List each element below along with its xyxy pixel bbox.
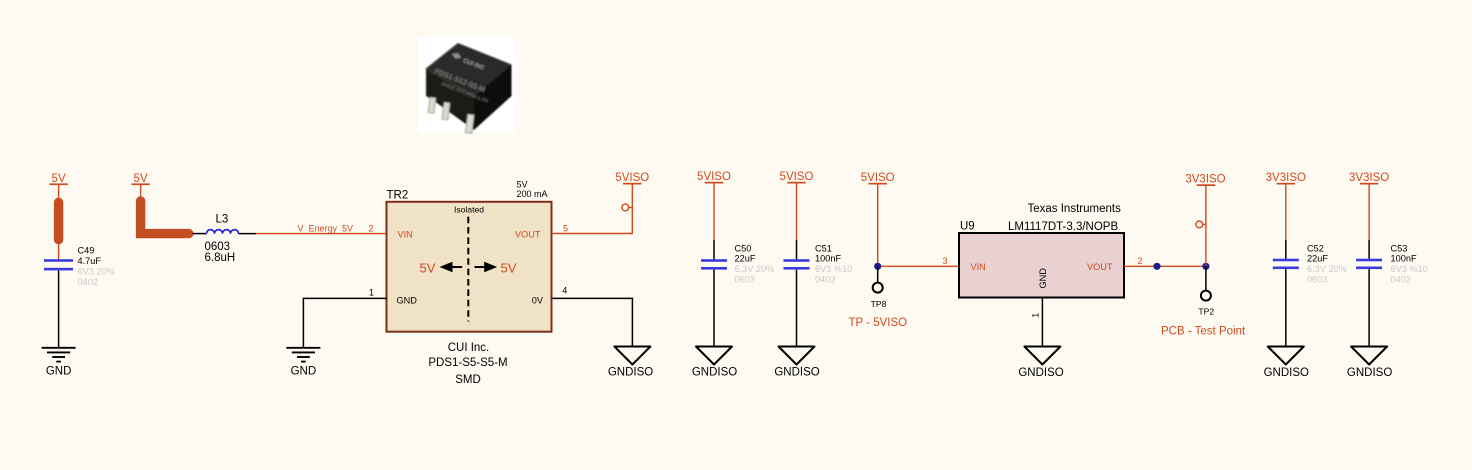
inductor L3	[207, 230, 239, 234]
svg-text:0402: 0402	[78, 277, 98, 287]
power port 3V3ISO (C52)	[1266, 172, 1306, 185]
ground GNDISO (TR2)	[608, 347, 653, 379]
svg-text:6.8uH: 6.8uH	[205, 252, 236, 264]
wire C52 to GNDISO	[1285, 269, 1287, 346]
svg-text:0603: 0603	[1307, 275, 1327, 285]
svg-text:C49: C49	[78, 246, 95, 256]
svg-text:0402: 0402	[815, 275, 835, 285]
wire 5VISO to C50	[713, 183, 715, 240]
svg-text:5V: 5V	[134, 173, 148, 185]
svg-text:0603: 0603	[205, 241, 231, 253]
value label C51 100nF 6V3 %10 0402	[815, 243, 852, 284]
svg-text:GND: GND	[397, 295, 418, 305]
svg-text:U9: U9	[960, 221, 975, 233]
svg-text:5: 5	[563, 223, 568, 233]
svg-text:4: 4	[562, 286, 567, 296]
svg-text:VOUT: VOUT	[1087, 262, 1113, 272]
power port 5VISO (C50)	[697, 171, 731, 184]
svg-text:GNDISO: GNDISO	[1018, 367, 1063, 379]
svg-text:4.7uF: 4.7uF	[78, 256, 102, 266]
svg-text:5V: 5V	[501, 261, 517, 276]
svg-text:5V: 5V	[420, 261, 436, 276]
value label C50 22uF 6.3V 20% 0603	[735, 243, 775, 284]
arrow right	[475, 263, 495, 271]
svg-text:GND: GND	[46, 366, 72, 378]
wire TR2 pin4 to GNDISO	[552, 298, 633, 346]
wire U9 VOUT to 3V3ISO node	[1124, 265, 1206, 267]
regulator U9 body	[959, 233, 1124, 298]
svg-text:TP2: TP2	[1198, 306, 1214, 316]
svg-text:TP - 5VISO: TP - 5VISO	[849, 317, 908, 329]
svg-text:GNDISO: GNDISO	[692, 367, 737, 379]
svg-text:2: 2	[1138, 256, 1143, 266]
svg-text:GNDISO: GNDISO	[608, 367, 653, 379]
component photo CUI PDS1 module	[419, 37, 515, 133]
svg-text:6V3 20%: 6V3 20%	[78, 266, 115, 276]
wire net V_Energy_5V	[256, 233, 387, 235]
svg-text:LM1117DT-3.3/NOPB: LM1117DT-3.3/NOPB	[1008, 221, 1118, 233]
no-ERC marker circle (5VISO)	[622, 204, 632, 211]
power port 5VISO (at TR2 output)	[615, 172, 649, 185]
wire 5VISO down to junction	[877, 184, 879, 266]
capacitor C49	[44, 259, 73, 270]
wire bus to C49	[58, 244, 60, 261]
svg-text:C53: C53	[1391, 243, 1408, 253]
svg-text:V_Energy_5V: V_Energy_5V	[298, 223, 354, 233]
junction node (5VISO/TP8)	[874, 263, 881, 270]
ground GNDISO (C50)	[692, 347, 737, 379]
wire L3 to net	[239, 233, 257, 235]
wire 3V3ISO to C52	[1285, 184, 1287, 240]
svg-text:5VISO: 5VISO	[697, 171, 731, 183]
wire C49 to GND	[58, 270, 60, 347]
svg-text:CUI Inc.: CUI Inc.	[448, 342, 490, 354]
svg-text:200 mA: 200 mA	[517, 189, 548, 199]
svg-text:GND: GND	[1038, 268, 1048, 289]
svg-text:3V3ISO: 3V3ISO	[1266, 172, 1306, 184]
svg-text:1: 1	[1031, 313, 1041, 318]
no-ERC marker circle (3V3ISO)	[1196, 221, 1206, 228]
svg-text:5VISO: 5VISO	[780, 171, 814, 183]
svg-text:0V: 0V	[532, 295, 544, 305]
svg-text:22uF: 22uF	[1307, 254, 1328, 264]
wire TR2 pin5 to 5VISO	[552, 184, 633, 234]
svg-text:5V: 5V	[52, 173, 66, 185]
transformer/DC-DC TR2 body	[387, 202, 552, 332]
capacitor C50	[701, 259, 727, 269]
svg-text:VIN: VIN	[971, 262, 986, 272]
svg-text:0402: 0402	[1391, 275, 1411, 285]
wire C50 to GNDISO	[713, 270, 715, 347]
wire TR2 pin1 to GND	[303, 298, 386, 347]
svg-text:1: 1	[369, 288, 374, 298]
power port 3V3ISO (U9 out)	[1185, 174, 1225, 187]
ground GND (under TR2)	[286, 348, 320, 362]
ground GNDISO (U9)	[1018, 347, 1063, 379]
svg-text:C51: C51	[815, 243, 832, 253]
test point TP2	[1201, 291, 1211, 301]
svg-text:VIN: VIN	[398, 229, 413, 239]
svg-text:GNDISO: GNDISO	[1264, 367, 1309, 379]
svg-text:PCB - Test Point: PCB - Test Point	[1161, 325, 1246, 337]
part label CUI Inc. PDS1-S5-S5-M SMD	[428, 342, 507, 386]
svg-text:GNDISO: GNDISO	[1347, 367, 1392, 379]
svg-text:Isolated: Isolated	[454, 205, 484, 215]
wire C51 to GNDISO	[796, 270, 798, 347]
capacitor C53	[1356, 259, 1382, 269]
value label C53 100nF 6V3 %10 0402	[1391, 243, 1428, 284]
wire junction to TP8	[877, 266, 879, 282]
wire node to 3V3ISO	[1205, 186, 1207, 266]
ground GNDISO (C52)	[1264, 347, 1309, 379]
svg-text:100nF: 100nF	[815, 254, 841, 264]
svg-text:3: 3	[943, 256, 948, 266]
svg-text:100nF: 100nF	[1391, 254, 1417, 264]
test point TP8	[873, 283, 883, 293]
power port 5VISO (TP8)	[861, 172, 895, 185]
svg-text:C50: C50	[735, 243, 752, 253]
power port 3V3ISO (C53)	[1349, 172, 1389, 185]
svg-text:TR2: TR2	[387, 190, 409, 202]
svg-text:6.3V 20%: 6.3V 20%	[735, 264, 775, 274]
svg-text:2: 2	[369, 223, 374, 233]
svg-text:L3: L3	[216, 214, 229, 226]
svg-text:5VISO: 5VISO	[615, 172, 649, 184]
power port 5V (second)	[131, 173, 149, 185]
wire 5VISO to C51	[796, 183, 798, 240]
svg-text:SMD: SMD	[455, 374, 481, 386]
wire 3V3ISO to C53	[1368, 184, 1370, 240]
svg-text:3V3ISO: 3V3ISO	[1349, 172, 1389, 184]
svg-text:6V3 %10: 6V3 %10	[1391, 264, 1428, 274]
capacitor C52	[1273, 259, 1299, 269]
arrow left	[442, 263, 462, 271]
wire 5V to bus	[140, 185, 142, 199]
svg-text:22uF: 22uF	[735, 254, 756, 264]
wire bus to L3	[193, 233, 207, 235]
thick bus segment (5V net tie)	[54, 202, 63, 239]
svg-text:VOUT: VOUT	[515, 229, 541, 239]
value label C52 22uF 6.3V 20% 0603	[1307, 243, 1347, 284]
ground GNDISO (C53)	[1347, 347, 1392, 379]
svg-text:TP8: TP8	[871, 299, 887, 309]
ground GND (left)	[42, 348, 76, 362]
wire 5V to C49	[58, 185, 60, 199]
svg-text:3V3ISO: 3V3ISO	[1185, 174, 1225, 186]
isolation dashed line	[467, 217, 469, 322]
power port 5VISO (C51)	[780, 171, 814, 184]
svg-text:GND: GND	[291, 366, 317, 378]
wire U9 pin1 to GNDISO	[1041, 298, 1043, 347]
svg-text:6.3V 20%: 6.3V 20%	[1307, 264, 1347, 274]
junction node (3V3ISO/TP2)	[1202, 263, 1209, 270]
svg-text:6V3 %10: 6V3 %10	[815, 264, 852, 274]
svg-text:0603: 0603	[735, 275, 755, 285]
junction node (VOUT)	[1153, 263, 1160, 270]
thick bus segment L-shape (5V feed)	[141, 201, 189, 234]
capacitor C51	[784, 259, 810, 269]
svg-text:GNDISO: GNDISO	[774, 367, 819, 379]
power port 5V (left)	[49, 173, 67, 185]
ground GNDISO (C51)	[774, 347, 819, 379]
svg-text:Texas Instruments: Texas Instruments	[1028, 203, 1122, 215]
svg-text:PDS1-S5-S5-M: PDS1-S5-S5-M	[428, 357, 507, 369]
svg-text:5VISO: 5VISO	[861, 172, 895, 184]
wire C53 to GNDISO	[1368, 269, 1370, 346]
value label C49 4.7uF 6V3 20% 0402	[78, 246, 115, 287]
wire junction to U9 VIN	[878, 265, 959, 267]
wire node to TP2	[1205, 266, 1207, 290]
svg-text:C52: C52	[1307, 243, 1324, 253]
